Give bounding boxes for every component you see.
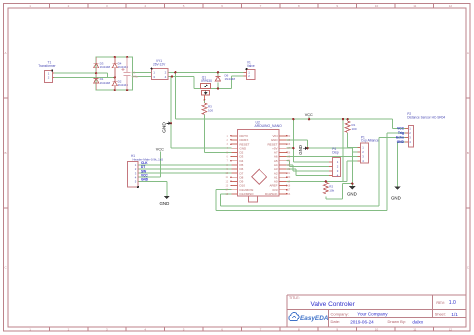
- svg-text:GND: GND: [160, 201, 170, 206]
- svg-text:1N4448: 1N4448: [225, 77, 236, 81]
- svg-text:GND: GND: [391, 196, 401, 201]
- svg-text:10: 10: [375, 4, 379, 8]
- svg-text:Trig: Trig: [398, 131, 404, 135]
- svg-text:D12/MISO: D12/MISO: [240, 192, 255, 196]
- svg-text:VCC: VCC: [305, 113, 313, 117]
- svg-text:100: 100: [352, 127, 357, 131]
- svg-text:480µ: 480µ: [132, 74, 139, 78]
- svg-text:D13/SCK: D13/SCK: [265, 192, 278, 196]
- svg-text:dalxx: dalxx: [412, 320, 423, 325]
- svg-text:VCC: VCC: [397, 127, 404, 131]
- svg-text:Disp: Disp: [332, 151, 339, 155]
- svg-text:Cup Alliance: Cup Alliance: [361, 139, 379, 143]
- svg-text:REV:: REV:: [436, 301, 445, 305]
- svg-text:11: 11: [413, 327, 416, 331]
- svg-text:100: 100: [208, 109, 213, 113]
- svg-text:GND: GND: [141, 178, 149, 182]
- svg-text:26V-12V: 26V-12V: [153, 63, 166, 67]
- svg-text:B: B: [5, 151, 7, 155]
- svg-text:Echo: Echo: [396, 136, 404, 140]
- svg-text:TITLE:: TITLE:: [289, 296, 300, 300]
- svg-text:Valve Controler: Valve Controler: [311, 301, 356, 308]
- svg-text:Drawn By:: Drawn By:: [388, 319, 406, 324]
- svg-text:A: A: [5, 51, 7, 55]
- svg-text:Sheet:: Sheet:: [435, 313, 446, 317]
- svg-text:12: 12: [449, 327, 453, 331]
- svg-text:B: B: [467, 151, 469, 155]
- svg-text:2019-06-24: 2019-06-24: [350, 320, 374, 325]
- svg-text:1/1: 1/1: [451, 312, 458, 317]
- svg-text:Header-Male-0.9k_1x5: Header-Male-0.9k_1x5: [133, 158, 164, 162]
- svg-text:11: 11: [413, 4, 416, 8]
- svg-text:Your Company: Your Company: [357, 312, 388, 317]
- svg-text:GND: GND: [161, 122, 167, 133]
- svg-text:GND: GND: [298, 145, 303, 155]
- svg-text:A: A: [467, 51, 469, 55]
- svg-text:10k: 10k: [329, 189, 334, 193]
- svg-text:12: 12: [449, 4, 453, 8]
- svg-text:Valve: Valve: [247, 64, 255, 68]
- svg-text:EasyEDA: EasyEDA: [300, 315, 329, 322]
- svg-text:GND: GND: [347, 191, 357, 196]
- svg-text:GND: GND: [397, 140, 405, 144]
- svg-text:1N4448: 1N4448: [100, 65, 111, 69]
- svg-text:IRF630: IRF630: [201, 79, 212, 83]
- svg-text:Transformer: Transformer: [38, 64, 56, 68]
- svg-text:VCC: VCC: [156, 148, 164, 152]
- svg-text:ARDUINO_NANO: ARDUINO_NANO: [255, 124, 283, 128]
- svg-text:1.0: 1.0: [449, 300, 456, 306]
- svg-text:1N4448: 1N4448: [100, 81, 111, 85]
- svg-text:Distance Sensor HC-SR04: Distance Sensor HC-SR04: [407, 115, 445, 119]
- svg-text:Date:: Date:: [331, 319, 341, 324]
- svg-text:10: 10: [375, 327, 379, 331]
- svg-text:Company:: Company:: [331, 312, 349, 317]
